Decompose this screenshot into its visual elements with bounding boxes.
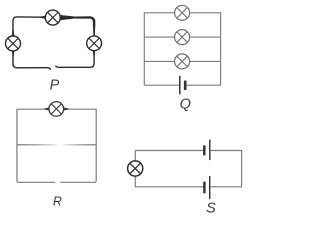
svg-text:R: R — [53, 195, 62, 209]
svg-text:P: P — [50, 78, 60, 94]
svg-text:Q: Q — [180, 97, 191, 113]
svg-text:S: S — [206, 201, 216, 217]
